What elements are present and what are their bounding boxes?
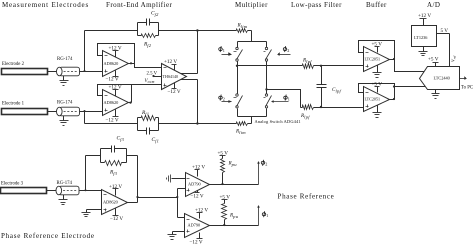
- svg-text:RG-174: RG-174: [57, 101, 73, 106]
- svg-text:Buffer: Buffer: [366, 1, 387, 9]
- svg-text:Rlim: Rlim: [237, 23, 248, 29]
- svg-text:Rlim: Rlim: [235, 129, 246, 135]
- svg-text:AD790: AD790: [188, 223, 201, 228]
- svg-text:Vocm: Vocm: [145, 79, 155, 84]
- svg-text:−12 V: −12 V: [106, 77, 119, 83]
- svg-text:Electrode 1: Electrode 1: [2, 102, 25, 107]
- svg-text:A/D: A/D: [427, 1, 440, 9]
- svg-text:LTC2440: LTC2440: [434, 76, 450, 81]
- svg-text:LTC2051: LTC2051: [365, 57, 381, 62]
- svg-text:Rpu: Rpu: [228, 161, 238, 167]
- svg-text:−12 V: −12 V: [106, 117, 119, 123]
- svg-text:Rf3: Rf3: [109, 170, 118, 176]
- svg-text:Phase Reference: Phase Reference: [278, 192, 335, 200]
- svg-text:1: 1: [223, 48, 225, 53]
- svg-text:Phase Reference Electrode: Phase Reference Electrode: [1, 232, 95, 240]
- svg-text:AD8620: AD8620: [103, 200, 118, 205]
- svg-text:Front-End Amplifier: Front-End Amplifier: [106, 1, 173, 9]
- svg-text:RG-174: RG-174: [57, 181, 73, 186]
- svg-text:−12 V: −12 V: [190, 240, 203, 244]
- svg-text:Electrode 3: Electrode 3: [1, 182, 24, 187]
- svg-text:Electrode 2: Electrode 2: [2, 62, 25, 67]
- svg-text:AD8620: AD8620: [104, 100, 119, 105]
- svg-text:2.5 V: 2.5 V: [147, 71, 158, 76]
- svg-text:AD790: AD790: [188, 182, 201, 187]
- svg-text:Analog Switch ADG441: Analog Switch ADG441: [255, 119, 301, 124]
- svg-text:Cf2: Cf2: [151, 11, 159, 17]
- svg-text:AD8620: AD8620: [104, 61, 119, 66]
- svg-text:2: 2: [287, 48, 289, 53]
- svg-text:Low-pass Filter: Low-pass Filter: [291, 1, 342, 9]
- svg-text:Rlpf: Rlpf: [300, 113, 310, 119]
- svg-text:−12 V: −12 V: [110, 216, 123, 222]
- svg-text:−12 V: −12 V: [168, 89, 181, 95]
- svg-text:Cf1: Cf1: [152, 137, 160, 143]
- svg-text:Multiplier: Multiplier: [235, 1, 268, 9]
- svg-text:Rf2: Rf2: [143, 42, 152, 48]
- svg-text:2: 2: [265, 162, 267, 167]
- svg-text:RG-174: RG-174: [57, 57, 73, 62]
- svg-text:LTC2051: LTC2051: [365, 97, 381, 102]
- svg-text:2: 2: [223, 97, 225, 102]
- svg-text:+5 V: +5 V: [428, 57, 439, 63]
- svg-text:To PC: To PC: [461, 86, 473, 91]
- svg-text:Rf1: Rf1: [141, 110, 149, 116]
- svg-text:1: 1: [288, 97, 290, 102]
- svg-text:5 V: 5 V: [441, 28, 449, 34]
- svg-text:Clpf: Clpf: [332, 87, 342, 93]
- svg-text:THS4140: THS4140: [163, 74, 179, 79]
- svg-text:Rlpf: Rlpf: [302, 58, 312, 64]
- svg-text:Cf3: Cf3: [117, 136, 125, 142]
- svg-text:1: 1: [266, 213, 268, 218]
- svg-text:Rpu: Rpu: [229, 213, 239, 219]
- svg-text:LT1236: LT1236: [414, 35, 428, 40]
- svg-text:−12 V: −12 V: [191, 194, 204, 200]
- svg-text:Measurement Electrodes: Measurement Electrodes: [2, 1, 89, 9]
